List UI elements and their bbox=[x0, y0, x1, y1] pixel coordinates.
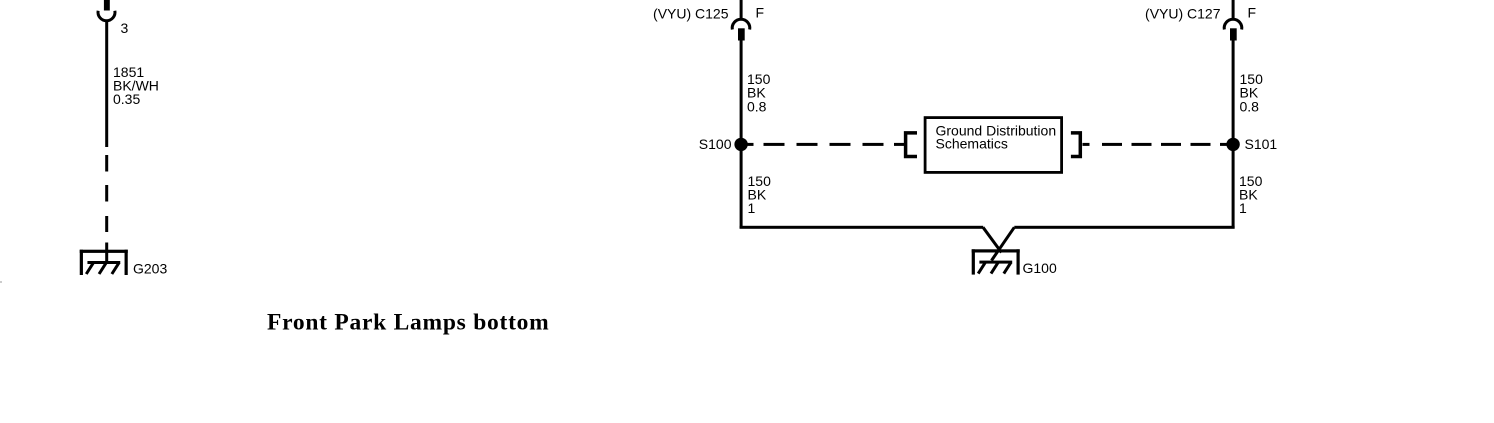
svg-text:G203: G203 bbox=[133, 261, 167, 277]
svg-text:G100: G100 bbox=[1023, 260, 1057, 276]
svg-text:(VYU) C125: (VYU) C125 bbox=[653, 6, 729, 22]
svg-text:0.35: 0.35 bbox=[113, 91, 140, 107]
svg-text:Front Park Lamps bottom: Front Park Lamps bottom bbox=[267, 310, 550, 336]
svg-text:(VYU) C127: (VYU) C127 bbox=[1145, 6, 1221, 22]
svg-text:F: F bbox=[1248, 5, 1257, 21]
svg-text:3: 3 bbox=[121, 20, 129, 36]
svg-text:0.8: 0.8 bbox=[1240, 99, 1260, 115]
svg-text:Schematics: Schematics bbox=[936, 135, 1008, 151]
svg-text:S101: S101 bbox=[1245, 136, 1278, 152]
svg-text:S100: S100 bbox=[699, 136, 732, 152]
svg-text:F: F bbox=[756, 5, 765, 21]
svg-text:0.8: 0.8 bbox=[747, 99, 767, 115]
svg-text:1: 1 bbox=[748, 200, 756, 216]
svg-text:1: 1 bbox=[1239, 200, 1247, 216]
